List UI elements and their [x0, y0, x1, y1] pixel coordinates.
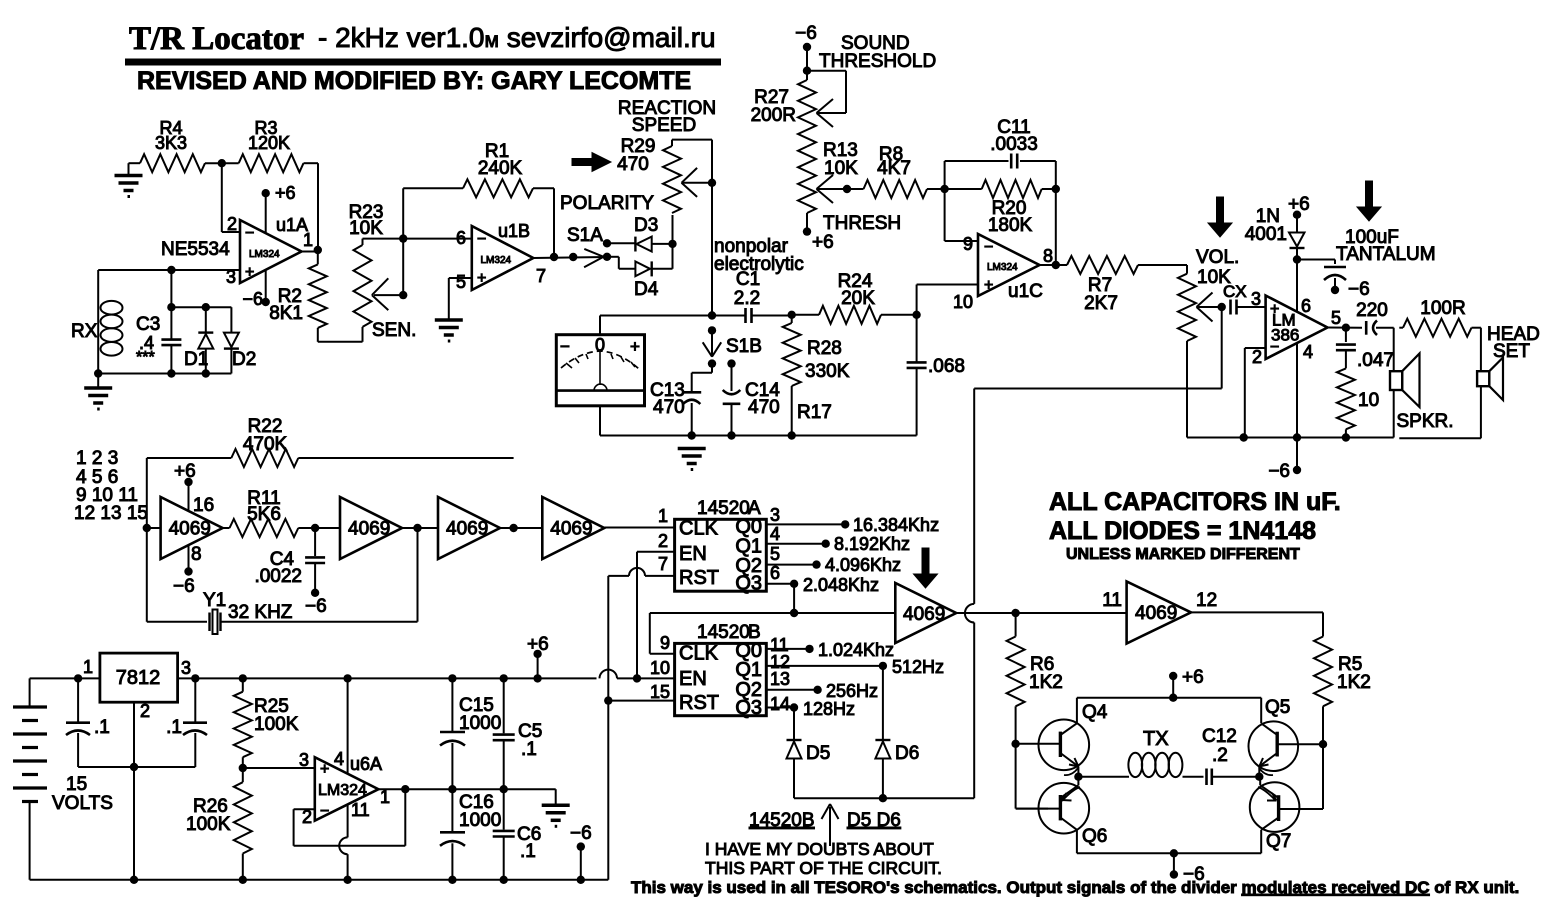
svg-text:4: 4: [770, 524, 780, 544]
wire plus rail: [30, 677, 100, 679]
svg-text:.1: .1: [94, 717, 110, 738]
resistor R22 feedback: [146, 458, 148, 528]
svg-text:+6: +6: [1288, 194, 1310, 215]
svg-text:−6: −6: [1348, 279, 1370, 300]
svg-text:10: 10: [650, 658, 670, 678]
svg-text:386: 386: [1271, 326, 1299, 345]
resistor R20: [945, 188, 982, 190]
op-amp u6A: [315, 757, 379, 821]
svg-text:+6: +6: [275, 183, 296, 203]
wire op-amp output: [302, 251, 318, 253]
svg-text:8: 8: [1043, 246, 1053, 266]
node junction: [314, 246, 322, 254]
capacitor .1 output: [191, 674, 199, 682]
wire: [304, 162, 319, 164]
svg-text:+: +: [320, 761, 329, 778]
svg-text:C3: C3: [136, 314, 160, 335]
switch S1B: [708, 326, 716, 334]
node junction: [550, 253, 558, 261]
diode D5: [793, 708, 795, 741]
svg-text:330K: 330K: [805, 361, 850, 382]
wire: [753, 315, 792, 317]
svg-text:RX: RX: [71, 321, 98, 342]
svg-text:16: 16: [193, 495, 214, 516]
svg-text:5: 5: [456, 272, 466, 292]
svg-text:TX: TX: [1143, 728, 1169, 750]
capacitor C5: [503, 678, 505, 733]
op-amp u1C: [978, 234, 1040, 296]
svg-text:NE5534: NE5534: [161, 239, 230, 260]
svg-text:32 KHZ: 32 KHZ: [228, 602, 293, 623]
svg-text:Q7: Q7: [1266, 831, 1291, 852]
wire RST B: [604, 696, 612, 704]
wire to speaker: [1376, 327, 1394, 329]
wire: [363, 238, 472, 240]
svg-text:D1: D1: [184, 349, 208, 370]
inverter 4069 F: [1127, 581, 1191, 643]
node junction: [167, 303, 175, 311]
svg-text:1K2: 1K2: [1337, 672, 1371, 693]
svg-text:R17: R17: [797, 402, 832, 423]
svg-text:11: 11: [1102, 590, 1122, 611]
node junction: [1240, 433, 1248, 441]
svg-text:+: +: [630, 337, 640, 356]
rail hop over RST: [600, 670, 618, 679]
svg-text:10: 10: [1358, 390, 1379, 411]
svg-text:2: 2: [140, 701, 150, 721]
wire pin3: [98, 269, 240, 271]
svg-text:SPKR.: SPKR.: [1397, 411, 1454, 432]
arrow icon: [572, 153, 611, 172]
svg-text:12 13 15: 12 13 15: [74, 503, 148, 524]
svg-text:LM324: LM324: [481, 255, 512, 266]
svg-text:+6: +6: [527, 634, 549, 655]
wire R29 top loop: [672, 139, 712, 141]
svg-text:This way is used in all TESORO: This way is used in all TESORO's schemat…: [631, 878, 1519, 897]
wire cap bottoms: [78, 766, 195, 768]
capacitor C13: [711, 364, 713, 373]
node junction: [688, 431, 696, 439]
svg-text:14520B: 14520B: [749, 810, 815, 831]
wire: [205, 162, 239, 164]
node junction: [668, 240, 676, 248]
inverter 4069 E: [895, 583, 956, 643]
svg-text:u1C: u1C: [1008, 281, 1043, 302]
node junction: [239, 674, 247, 682]
svg-text:6: 6: [1301, 296, 1311, 316]
svg-text:VOL.: VOL.: [1196, 247, 1239, 268]
svg-text:.1: .1: [166, 717, 182, 738]
svg-text:6: 6: [770, 563, 780, 583]
resistor R2: [317, 250, 319, 264]
resistor R1: [463, 179, 533, 197]
svg-text:10: 10: [953, 292, 973, 312]
switch S1A: [584, 249, 603, 257]
wire: [1183, 776, 1204, 778]
svg-text:REVISED AND MODIFIED BY: GARY: REVISED AND MODIFIED BY: GARY LECOMTE: [137, 67, 691, 95]
power -6 stub: [262, 298, 270, 306]
svg-text:4.096Khz: 4.096Khz: [825, 555, 901, 575]
svg-text:THRESH: THRESH: [823, 213, 901, 234]
svg-text:470: 470: [748, 397, 780, 418]
svg-text:128Hz: 128Hz: [803, 699, 855, 719]
node junction: [940, 185, 948, 193]
node junction: [239, 764, 247, 772]
wire meter bottom: [599, 406, 601, 436]
wire: [1237, 306, 1266, 308]
node junction: [143, 524, 151, 532]
diode D1: [205, 307, 207, 332]
svg-text:u1B: u1B: [498, 221, 530, 241]
svg-text:UNLESS MARKED DIFFERENT: UNLESS MARKED DIFFERENT: [1066, 546, 1300, 563]
svg-text:S1B: S1B: [726, 336, 762, 357]
wire bottom: [98, 373, 231, 375]
inverter 4069 C: [438, 497, 500, 559]
power -6 stub pin8: [184, 567, 192, 575]
arrow icon: [1208, 197, 1232, 237]
output Q2 A: [766, 564, 816, 566]
svg-text:CX: CX: [1223, 282, 1247, 301]
svg-text:20K: 20K: [841, 288, 875, 309]
svg-text:SEN.: SEN.: [372, 320, 416, 341]
potentiometer R27: [806, 71, 808, 80]
svg-text:.0022: .0022: [254, 566, 302, 587]
resistor R3: [239, 154, 304, 172]
svg-text:−: −: [477, 231, 486, 248]
wire R1 left leg: [402, 188, 404, 238]
svg-text:15: 15: [66, 774, 87, 795]
svg-text:I HAVE MY DOUBTS ABOUT: I HAVE MY DOUBTS ABOUT: [705, 839, 934, 859]
arrow up icon: [829, 807, 831, 846]
wire Q3 to gate: [793, 584, 795, 613]
coil RX: [97, 270, 99, 374]
potentiometer VOL: [1186, 265, 1188, 274]
transistor Q7: [1250, 782, 1300, 832]
meter M: [599, 316, 601, 335]
capacitor C11 loop: [944, 161, 946, 189]
output Q3 B 128Hz: [766, 707, 794, 709]
wire base Q6: [1015, 744, 1017, 809]
svg-text:SET: SET: [1493, 341, 1530, 362]
svg-text:.0033: .0033: [990, 134, 1038, 155]
wire: [147, 527, 161, 529]
node junction: [509, 524, 517, 532]
diode D2: [230, 307, 232, 332]
inverter 4069 D: [542, 497, 604, 559]
potentiometer R13: [798, 147, 816, 214]
resistor R6: [1015, 613, 1017, 637]
svg-text:3: 3: [299, 750, 309, 770]
svg-text:LM324: LM324: [987, 262, 1018, 273]
svg-text:2.048Khz: 2.048Khz: [803, 575, 879, 595]
wire output pin5: [1328, 327, 1363, 329]
wire: [243, 767, 315, 769]
svg-text:Q3: Q3: [735, 697, 762, 719]
wire emitter rail -6: [1077, 852, 1261, 854]
output Q2 B: [766, 689, 817, 691]
svg-text:5K6: 5K6: [247, 504, 281, 525]
capacitor C12: [1205, 769, 1208, 786]
node junction: [311, 524, 319, 532]
op-amp LM386: [1266, 296, 1328, 360]
capacitor 100uF tantalum: [1297, 259, 1335, 261]
svg-text:−: −: [984, 239, 993, 256]
svg-text:11: 11: [351, 800, 370, 820]
capacitor C16: [451, 789, 453, 832]
wire wiper feedback: [1221, 307, 1223, 389]
svg-text:4069: 4069: [348, 519, 390, 540]
output Q0 B: [766, 648, 809, 650]
capacitor C3: [170, 270, 172, 340]
svg-text:4069: 4069: [903, 604, 945, 625]
svg-text:7: 7: [658, 554, 668, 574]
wire pin10: [917, 284, 978, 286]
svg-text:−6: −6: [305, 596, 327, 617]
node junction: [708, 311, 716, 319]
svg-text:8K1: 8K1: [269, 303, 303, 324]
svg-text:470: 470: [653, 397, 685, 418]
capacitor C6: [503, 789, 505, 829]
svg-text:6: 6: [456, 228, 466, 248]
node junction: [1052, 261, 1060, 269]
svg-text:100R: 100R: [1420, 298, 1465, 319]
svg-text:EN: EN: [679, 543, 707, 565]
transistor Q5: [1249, 721, 1299, 771]
svg-text:- 2kHz ver1.0м sevzirfo@mail: - 2kHz ver1.0м sevzirfo@mail.ru: [318, 22, 716, 53]
wire: [500, 527, 542, 529]
svg-text:13: 13: [770, 669, 790, 689]
svg-text:+: +: [245, 264, 254, 281]
svg-text:CLK: CLK: [679, 643, 719, 665]
power +6 stub: [533, 650, 541, 658]
potentiometer R23 SEN: [362, 327, 364, 342]
svg-text:.1: .1: [521, 739, 537, 760]
wire D3 branch: [603, 239, 611, 247]
wire to D1 D2: [171, 306, 231, 308]
svg-text:4069: 4069: [446, 519, 488, 540]
ground: [128, 163, 130, 175]
capacitor C1: [744, 308, 747, 323]
wire bottom rail: [1186, 341, 1188, 438]
resistor R8: [847, 188, 864, 190]
diode D3: [634, 237, 636, 252]
node junction: [843, 185, 851, 193]
resistor R5: [1314, 637, 1332, 707]
wire: [221, 163, 223, 232]
transistor Q4: [1039, 720, 1090, 771]
svg-text:THIS PART OF THE CIRCUIT.: THIS PART OF THE CIRCUIT.: [705, 858, 942, 878]
node junction: [399, 291, 407, 299]
svg-text:−6: −6: [570, 823, 592, 844]
wire pin11 to rail with hop: [347, 805, 349, 837]
node junction: [1052, 185, 1060, 193]
wire R1 right leg: [533, 187, 554, 189]
crystal Y1: [146, 528, 148, 622]
svg-text:Q1: Q1: [735, 659, 762, 681]
headset: [1480, 328, 1482, 372]
svg-text:7812: 7812: [116, 667, 161, 689]
svg-text:−: −: [245, 225, 254, 242]
svg-text:4: 4: [1303, 342, 1313, 362]
resistor R25: [242, 678, 244, 691]
ground: [542, 804, 570, 808]
wire: [927, 188, 945, 190]
svg-text:D5: D5: [806, 743, 830, 764]
svg-text:+: +: [984, 277, 993, 294]
svg-text:120K: 120K: [248, 133, 290, 153]
node junction: [788, 311, 796, 319]
svg-text:CLK: CLK: [679, 518, 719, 540]
svg-text:8.192Khz: 8.192Khz: [834, 534, 910, 554]
node junction: [167, 266, 175, 274]
svg-text:9: 9: [660, 633, 670, 653]
svg-text:10K: 10K: [824, 158, 858, 179]
svg-text:POLARITY: POLARITY: [560, 193, 654, 214]
svg-text:1.024Khz: 1.024Khz: [818, 640, 894, 660]
svg-text:5: 5: [770, 544, 780, 564]
node junction: [1011, 740, 1019, 748]
wire D4 branch: [607, 256, 619, 258]
coil TX: [1078, 776, 1129, 778]
svg-text:3: 3: [181, 658, 191, 678]
ground: [678, 447, 706, 451]
node junction: [803, 67, 811, 75]
svg-text:512Hz: 512Hz: [892, 657, 944, 677]
svg-text:.1: .1: [520, 841, 536, 862]
svg-text:Q5: Q5: [1265, 697, 1290, 718]
svg-text:2.2: 2.2: [734, 288, 760, 309]
node junction TX right: [1255, 773, 1263, 781]
wire pin4: [347, 678, 349, 773]
svg-text:D6: D6: [895, 743, 919, 764]
wire pin2: [1245, 347, 1266, 349]
svg-text:240K: 240K: [478, 158, 523, 179]
svg-text:TANTALUM: TANTALUM: [1336, 244, 1436, 265]
resistor 10: [1337, 368, 1355, 429]
svg-text:470: 470: [617, 154, 649, 175]
wire: [806, 213, 808, 232]
svg-text:1000: 1000: [459, 713, 501, 734]
svg-text:EN: EN: [679, 668, 707, 690]
title underline bar: [125, 59, 721, 66]
wire EN A: [637, 551, 675, 553]
svg-text:LM324: LM324: [249, 249, 280, 260]
svg-text:100K: 100K: [186, 814, 231, 835]
svg-text:+6: +6: [812, 232, 834, 253]
svg-text:180K: 180K: [988, 215, 1033, 236]
svg-text:T/R Locator: T/R Locator: [129, 21, 304, 57]
svg-text:+6: +6: [174, 461, 196, 482]
svg-text:D2: D2: [232, 349, 256, 370]
svg-text:3: 3: [770, 505, 780, 525]
svg-text:D5 D6: D5 D6: [847, 810, 901, 831]
speaker SPKR: [1390, 371, 1402, 390]
power -6 stub: [577, 842, 585, 850]
svg-text:4069: 4069: [550, 519, 592, 540]
svg-text:−6: −6: [173, 576, 195, 597]
IC 14520A box: [675, 519, 767, 591]
wire EN B with junction: [633, 674, 641, 682]
power +6 stub pin16: [184, 478, 192, 486]
op-amp u1B: [472, 226, 534, 290]
wire: [672, 215, 674, 269]
inverter 4069 A: [161, 497, 223, 559]
resistor R7: [1067, 256, 1138, 274]
svg-text:VOLTS: VOLTS: [52, 793, 113, 814]
svg-text:16.384Khz: 16.384Khz: [853, 515, 939, 535]
node junction: [74, 674, 82, 682]
svg-text:RST: RST: [679, 692, 719, 714]
node junction: [239, 876, 247, 884]
power -6 stub: [1293, 466, 1301, 474]
wire output u6A mid rail: [378, 788, 555, 790]
svg-text:3: 3: [1251, 289, 1261, 309]
node junction: [130, 763, 138, 771]
svg-text:3K3: 3K3: [155, 133, 187, 153]
svg-text:.068: .068: [928, 356, 965, 377]
feedback loop pin2 with hop: [294, 808, 315, 810]
svg-text:+: +: [477, 270, 486, 287]
wire: [318, 341, 363, 343]
svg-text:+6: +6: [1182, 667, 1204, 688]
svg-text:4K7: 4K7: [877, 158, 911, 179]
svg-text:−6: −6: [242, 289, 263, 309]
svg-text:−: −: [320, 803, 329, 820]
output Q3 A: [766, 583, 794, 585]
svg-text:4069: 4069: [1135, 603, 1177, 624]
svg-text:10K: 10K: [349, 218, 383, 239]
svg-text:1K2: 1K2: [1029, 672, 1063, 693]
resistor R4: [129, 162, 141, 164]
svg-text:1: 1: [303, 230, 313, 250]
node junction: [399, 234, 407, 242]
svg-text:2: 2: [227, 214, 237, 234]
svg-text:15: 15: [650, 682, 670, 702]
wire pin4: [1296, 344, 1298, 471]
battery 15V: [29, 678, 31, 707]
svg-text:8: 8: [191, 544, 202, 565]
wire: [944, 189, 946, 241]
capacitor .047: [1345, 328, 1347, 342]
wire diode bottoms: [794, 797, 974, 799]
node junction: [401, 785, 409, 793]
wire signal node: [600, 315, 745, 317]
svg-text:***: ***: [136, 349, 155, 366]
ground: [97, 374, 99, 389]
svg-text:ALL CAPACITORS IN uF.: ALL CAPACITORS IN uF.: [1049, 488, 1341, 516]
resistor 100R: [1399, 327, 1403, 329]
wire base Q7: [1322, 744, 1324, 809]
node junction: [1218, 303, 1226, 311]
output Q1 A: [766, 543, 825, 545]
svg-text:2: 2: [1252, 347, 1262, 367]
power +6 stub: [262, 189, 270, 197]
output Q0 A: [766, 523, 845, 525]
svg-text:C12: C12: [1202, 726, 1237, 747]
svg-text:.2: .2: [1212, 745, 1228, 766]
wire CLK B: [650, 653, 675, 655]
potentiometer R29: [671, 140, 673, 146]
svg-text:2: 2: [658, 531, 668, 551]
svg-text:100K: 100K: [254, 714, 299, 735]
wire: [604, 527, 674, 529]
wire output u1C: [1040, 264, 1068, 266]
resistor R26: [234, 782, 252, 853]
svg-text:R28: R28: [807, 338, 842, 359]
svg-text:256Hz: 256Hz: [826, 681, 878, 701]
wire output u1B: [533, 257, 606, 258]
svg-text:200R: 200R: [751, 105, 796, 126]
